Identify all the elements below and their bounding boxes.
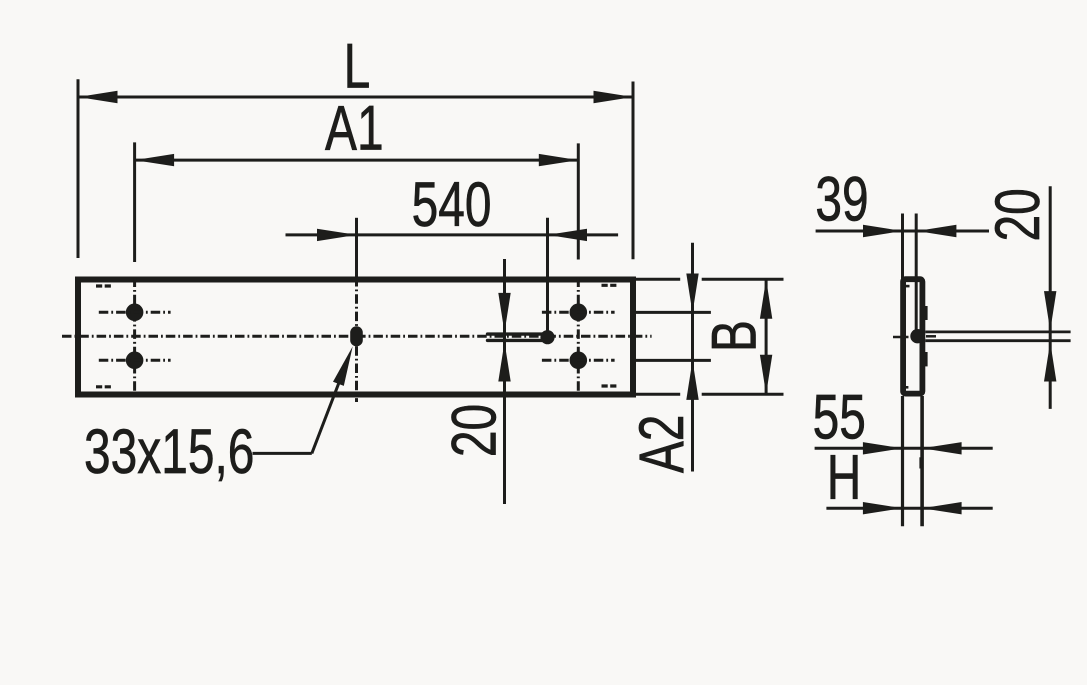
leader line 33x15,6 [253,452,312,455]
flat bar lower edge [925,339,1070,342]
centre line through left holes (upper) [99,311,171,314]
long slot lower edge [488,339,545,342]
arrow 20 lower (outside) [498,342,510,382]
dimension line 20 (slot) [503,259,506,504]
svg-text:A2: A2 [625,415,696,474]
dimension line A2 [691,243,694,472]
svg-text:540: 540 [412,169,492,240]
post line left (below profile) [901,396,904,526]
flat bar centre stub [926,335,936,338]
svg-text:20: 20 [438,404,509,457]
arrow 540 left (outside) [317,229,357,241]
horizontal centre line [62,335,652,338]
right hole column centre line (dash-dot) [577,278,580,392]
svg-text:20: 20 [982,188,1053,241]
dimension line 540 [286,233,619,236]
extension line L left [77,79,80,258]
arrow B bottom [760,355,772,395]
arrow 20 bar lower (outside) [1044,342,1056,382]
hidden-edge stub bottom-left [96,385,111,388]
post line right (below profile) [920,396,924,526]
svg-text:39: 39 [815,163,868,234]
dimension line 39 [816,230,989,233]
extension line A2 top [636,311,711,314]
arrow 20 bar upper (outside) [1044,291,1056,331]
arrow H left (outside) [863,502,903,514]
svg-text:33x15,6: 33x15,6 [84,415,254,486]
centre line through left holes (lower) [99,359,171,362]
hole top-left [126,304,144,322]
arrow A1 left [135,154,175,166]
left hole column centre line (dash-dot) [133,278,136,392]
nub on right post line [919,457,922,468]
extension line L right [632,82,635,260]
arrow 39 left (outside) [863,225,903,237]
arrow L left [78,91,118,103]
leader arrowhead [333,346,353,386]
inner edge line [915,214,918,337]
hole bottom-right [570,352,588,370]
svg-text:H: H [827,441,862,512]
extension line A2 bottom [636,359,711,362]
dimension line 20 (bar) [1049,186,1052,409]
arrow 540 right (outside) [548,229,588,241]
centre tick through wall [893,336,909,339]
right hole column centre line (ext of A1) [577,143,580,259]
long slot upper edge [488,332,545,335]
hole bottom-left [126,352,144,370]
extension line B top [636,278,680,281]
profile outline (side view) [903,279,922,393]
rib lower (right wall) [922,352,928,366]
svg-text:B: B [698,320,769,352]
arrow H right (outside) [922,502,962,514]
flat bar upper edge [925,330,1070,333]
centre line through right holes (lower) [542,359,615,362]
arrow A1 right [539,154,579,166]
dimension line L [78,96,633,99]
notch top inner wall [906,285,910,288]
arrow 55 left (outside) [863,442,903,454]
arrow B top [760,279,772,319]
extension line 540 right [546,218,549,331]
plate outline (top view) [78,280,633,395]
dimension line H [826,507,992,510]
slot centre line (ext of 540) [355,218,358,277]
left hole column centre line (ext of A1) [133,142,136,262]
rib upper (right wall) [922,306,928,320]
hidden-edge stub bottom-right [602,384,617,387]
notch bottom inner wall [905,386,908,389]
dimension line 55 [815,447,993,450]
extension line 39 left [901,214,904,281]
arrow 39 right (outside) [917,225,957,237]
hole top-right [570,304,588,322]
hidden-edge stub top-left [96,284,111,287]
svg-text:A1: A1 [325,92,384,163]
arrow 55 right (outside) [922,442,962,454]
slot centre line (dash-dot) [355,277,358,402]
arrow A2 upper (outside) [686,274,698,314]
arrow A2 lower (outside) [686,360,698,400]
weld dot (bar attachment) [910,329,924,343]
dimension line B [765,279,768,394]
arrow 20 upper (outside) [498,293,510,333]
arrow L right [594,91,634,103]
hidden-edge stub top-right [602,284,617,287]
extension line B bottom [636,393,680,396]
hole at slot end [540,330,554,344]
slot 33x15,6 (filled mark) [350,326,363,346]
svg-text:L: L [344,30,371,101]
centre line through right holes (upper) [542,311,615,314]
dimension line A1 [135,159,579,162]
